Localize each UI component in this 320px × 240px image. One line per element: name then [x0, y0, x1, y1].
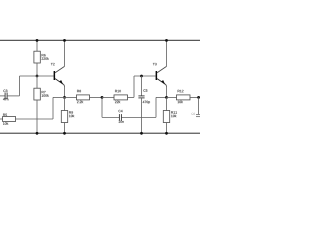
resistor R10 [102, 96, 114, 98]
label C3 value [3, 98, 8, 100]
node E T3 emitter junction [165, 96, 168, 99]
wire R10 up to T3 base [133, 76, 135, 97]
label R6 text [42, 54, 46, 56]
resistor R9 [64, 97, 66, 110]
node D C5 tap on base wire [140, 75, 143, 78]
label C4 value [119, 120, 124, 122]
label R9 text [69, 111, 73, 113]
wire ground bottom rail [0, 132, 200, 134]
capacitor C5 [138, 76, 144, 133]
label R5 text [3, 114, 7, 116]
wire base node to T2 base [37, 75, 54, 77]
junction T3 collector on V+ rail [165, 39, 168, 42]
label C5 text [143, 89, 147, 91]
label R7 text [42, 91, 46, 93]
transistor T3 [156, 40, 167, 97]
label R8 text [77, 90, 81, 92]
label R9 value [69, 115, 74, 117]
label T3 text [153, 63, 157, 65]
resistor R6 [34, 51, 40, 63]
junction R9 bottom on ground rail [63, 132, 66, 135]
label R11 text [171, 111, 177, 113]
label C3 text [3, 90, 7, 92]
node C R8/R10/C4 junction [101, 96, 104, 99]
resistor R11 [166, 97, 168, 110]
wire rail to R6 [36, 40, 38, 51]
node F output junction [197, 96, 200, 99]
label C6 text [192, 113, 196, 115]
capacitor C4 [102, 97, 156, 120]
wire R5 up to emitter node [52, 97, 54, 119]
label R5 value [3, 122, 8, 124]
junction R7 bottom on ground rail [36, 132, 39, 135]
wire R7 to ground [36, 100, 38, 133]
capacitor C6 (cut at edge) [196, 97, 200, 116]
junction R11 bottom on ground rail [165, 132, 168, 135]
label R10 text [115, 90, 121, 92]
node A divider/base junction [36, 75, 39, 78]
resistor R5 [0, 117, 53, 122]
label R12 text [178, 90, 184, 92]
capacitor C3 [0, 93, 20, 100]
wire C3 up to base node [19, 76, 21, 96]
label R12 value [178, 101, 183, 103]
label R6 value [42, 57, 49, 59]
label R8 value [77, 101, 83, 103]
transistor T2 [54, 40, 65, 97]
label R11 value [171, 115, 176, 117]
junction R6 top on V+ rail [36, 39, 39, 42]
label R10 value [115, 101, 120, 103]
wire R6 to base node [36, 63, 38, 76]
label C5 value [143, 101, 150, 104]
wire C4 up to T3 emitter node [155, 97, 157, 117]
junction C5 bottom on ground rail [140, 132, 143, 135]
label C4 text [118, 110, 122, 112]
resistor R12 [167, 96, 177, 98]
node B T2 emitter junction [63, 96, 66, 99]
wire V+ top rail [0, 39, 200, 41]
label T2 text [51, 63, 55, 65]
label R7 value [42, 94, 49, 96]
resistor R7 [36, 76, 38, 88]
resistor R8 [65, 96, 77, 98]
junction T2 collector on V+ rail [63, 39, 66, 42]
